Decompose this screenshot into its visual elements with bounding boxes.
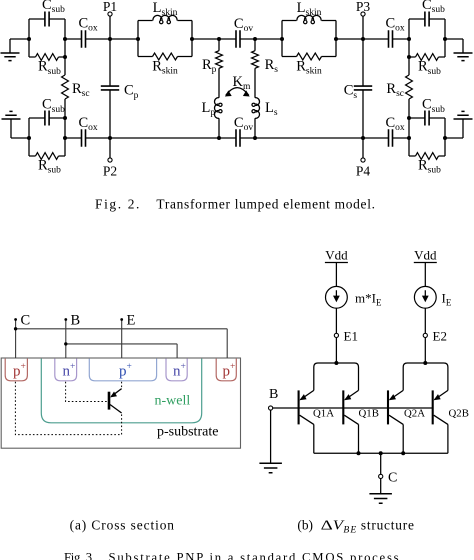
- svg-text:P1: P1: [103, 0, 117, 14]
- svg-text:B: B: [269, 387, 278, 402]
- svg-text:E2: E2: [433, 329, 447, 344]
- svg-text:+: +: [230, 362, 235, 372]
- svg-text:E1: E1: [344, 329, 358, 344]
- svg-text:p-substrate: p-substrate: [157, 425, 218, 440]
- svg-text:Transformer lumped element mod: Transformer lumped element model.: [156, 196, 375, 211]
- svg-text:(a) Cross section: (a) Cross section: [70, 517, 175, 532]
- svg-text:p: p: [119, 364, 127, 380]
- svg-text:P3: P3: [356, 0, 371, 14]
- svg-text:B: B: [71, 313, 81, 329]
- svg-text:Q2A: Q2A: [404, 408, 425, 420]
- svg-text:Q2B: Q2B: [449, 408, 469, 420]
- svg-text:Vdd: Vdd: [414, 248, 437, 263]
- svg-text:p: p: [13, 364, 21, 380]
- svg-text:+: +: [181, 362, 186, 372]
- svg-text:n-well: n-well: [155, 394, 191, 409]
- svg-text:p: p: [223, 364, 231, 380]
- svg-text:E: E: [127, 313, 136, 329]
- svg-text:Substrate PNP in a standard CM: Substrate PNP in a standard CMOS process…: [109, 550, 404, 560]
- svg-text:Q1B: Q1B: [359, 408, 379, 420]
- svg-text:Vdd: Vdd: [325, 248, 348, 263]
- svg-text:+: +: [21, 362, 26, 372]
- svg-text:BE: BE: [343, 524, 356, 535]
- svg-text:+: +: [127, 362, 132, 372]
- svg-text:C: C: [21, 313, 31, 329]
- svg-text:P2: P2: [103, 163, 117, 178]
- svg-text:C: C: [388, 471, 397, 486]
- svg-text:Q1A: Q1A: [313, 408, 334, 420]
- svg-text:(b): (b): [297, 517, 313, 532]
- svg-text:+: +: [70, 362, 75, 372]
- svg-text:P4: P4: [356, 163, 371, 178]
- svg-text:Δ: Δ: [321, 517, 334, 532]
- svg-text:Fig. 2.: Fig. 2.: [95, 196, 139, 211]
- svg-text:Fig. 3.: Fig. 3.: [64, 550, 95, 560]
- svg-text:structure: structure: [361, 517, 414, 532]
